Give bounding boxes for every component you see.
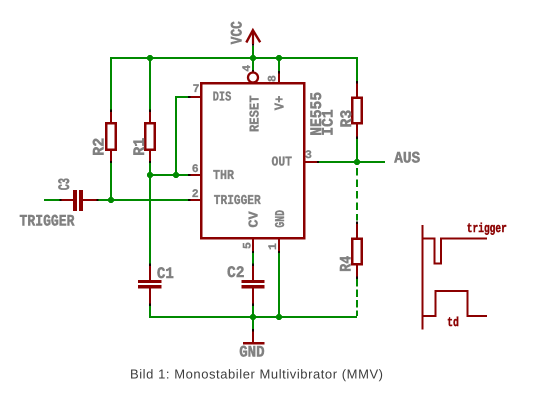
pin 2 TRIGGER stub: [188, 199, 202, 201]
svg-text:trigger: trigger: [467, 221, 507, 236]
junction: top rail / VCC: [250, 55, 256, 61]
svg-text:IC1: IC1: [320, 109, 338, 136]
pin 6 THR stub: [188, 174, 202, 176]
svg-text:C2: C2: [227, 264, 245, 282]
ground GND symbol: [243, 329, 264, 343]
pin 5 CV stub: [252, 239, 254, 254]
svg-text:TRIGGER: TRIGGER: [20, 213, 75, 231]
junction: OUT net / R3 / R4: [354, 159, 360, 165]
timing diagram axis: [422, 225, 424, 329]
wire: pin7 DIS connection: [176, 97, 190, 175]
capacitor C1: [138, 264, 161, 307]
wire: dashed link OUT junction to R4 top: [356, 168, 358, 221]
junction: trigger net / R2 column: [108, 197, 114, 203]
trigger waveform: [423, 239, 488, 264]
svg-text:V+: V+: [274, 96, 289, 111]
svg-text:7: 7: [193, 83, 200, 96]
wire: C1 bottom to ground rail to R4 column: [150, 289, 357, 317]
svg-text:RESET: RESET: [248, 96, 263, 133]
junction: ground rail / C2 / GND symbol: [250, 314, 256, 320]
svg-text:GND: GND: [239, 344, 264, 362]
pin 3 OUT stub: [305, 161, 320, 163]
svg-text:CV: CV: [247, 210, 262, 227]
junction: THR net / pin7 wire: [173, 172, 179, 178]
wire: GND symbol stub: [252, 317, 254, 329]
svg-text:TRIGGER: TRIGGER: [214, 194, 262, 209]
svg-text:Bild 1: Monostabiler Multivibr: Bild 1: Monostabiler Multivibrator (MMV): [130, 367, 384, 382]
svg-text:6: 6: [192, 163, 199, 176]
pin 1 GND stub: [278, 239, 280, 254]
svg-text:8: 8: [266, 75, 279, 82]
wire: R1/C1 column (top rail to C1 top plate): [149, 58, 151, 280]
svg-text:C3: C3: [56, 178, 74, 190]
svg-text:VCC: VCC: [228, 21, 246, 44]
svg-text:td: td: [447, 315, 459, 330]
svg-text:3: 3: [305, 149, 312, 162]
wire: R2 column + VCC top rail + R3 column: [111, 58, 357, 200]
resistor R1: [145, 110, 155, 164]
capacitor C3: [60, 190, 99, 211]
capacitor C2: [241, 264, 264, 307]
svg-text:R4: R4: [337, 255, 355, 271]
pin 7 DIS stub: [188, 96, 202, 98]
wire: OUT net to AUS: [319, 161, 386, 163]
wire: pin1 GND column: [278, 253, 280, 317]
wire: dashed link R4 bottom to ground rail: [356, 279, 358, 316]
IC IC1 NE555 body: [201, 83, 304, 238]
wire: TRIGGER input net: [44, 199, 190, 201]
resistor R4: [352, 222, 362, 279]
svg-text:1: 1: [267, 243, 280, 250]
svg-text:R2: R2: [90, 138, 108, 156]
resistor R3: [352, 81, 362, 139]
svg-text:AUS: AUS: [394, 150, 420, 168]
svg-text:4: 4: [241, 65, 254, 72]
wire: VCC symbol stub + pin4 wire: [252, 46, 254, 70]
td waveform: [423, 291, 488, 316]
svg-text:R3: R3: [338, 110, 356, 128]
junction: top rail / R1 column: [147, 55, 153, 61]
junction: top rail / pin8: [276, 55, 282, 61]
svg-text:5: 5: [242, 242, 255, 249]
wire: pin8 V+ stub wire: [278, 58, 280, 71]
svg-text:GND: GND: [274, 210, 289, 228]
svg-text:2: 2: [192, 188, 199, 201]
resistor R2: [106, 110, 116, 164]
svg-text:THR: THR: [213, 169, 235, 184]
wire: C2 bottom to ground rail: [252, 306, 254, 317]
junction: THR net / R1 column: [147, 172, 153, 178]
svg-text:C1: C1: [157, 265, 174, 283]
svg-text:DIS: DIS: [213, 90, 232, 105]
pin 8 V+ stub: [278, 71, 280, 84]
svg-text:R1: R1: [131, 138, 149, 156]
wire: pin6 THR connection: [150, 174, 190, 176]
wire: pin5 CV stub wire to C2: [252, 253, 254, 264]
junction: ground rail / pin1: [276, 314, 282, 320]
svg-text:OUT: OUT: [272, 156, 293, 171]
pin 4 RESET stub with inversion bubble: [248, 70, 258, 83]
supply VCC symbol (arrow): [246, 30, 260, 46]
